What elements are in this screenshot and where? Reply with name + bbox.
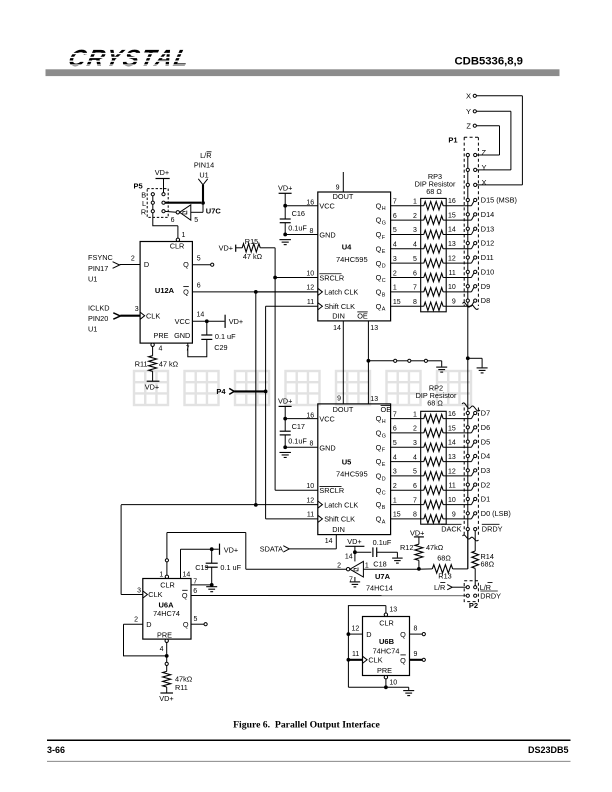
- svg-text:D1: D1: [481, 495, 490, 504]
- svg-text:VD+: VD+: [155, 168, 169, 177]
- svg-text:6: 6: [171, 217, 175, 224]
- svg-text:7: 7: [413, 285, 417, 292]
- svg-text:8: 8: [413, 299, 417, 306]
- svg-text:14: 14: [325, 538, 333, 545]
- svg-text:11: 11: [307, 512, 314, 519]
- svg-text:GND: GND: [174, 331, 190, 340]
- svg-text:9: 9: [452, 299, 456, 306]
- svg-text:Latch CLK: Latch CLK: [324, 500, 358, 509]
- svg-text:D4: D4: [481, 452, 490, 461]
- svg-text:Q: Q: [183, 288, 189, 297]
- svg-text:C: C: [382, 278, 386, 284]
- svg-text:Z: Z: [482, 148, 487, 157]
- svg-text:13: 13: [389, 607, 397, 614]
- svg-text:Q: Q: [376, 443, 382, 452]
- svg-text:9: 9: [452, 511, 456, 518]
- svg-text:8: 8: [413, 512, 417, 519]
- svg-text:SRCLR: SRCLR: [319, 273, 344, 282]
- svg-text:DIN: DIN: [332, 525, 345, 534]
- svg-text:5: 5: [194, 217, 198, 224]
- svg-text:P4: P4: [216, 387, 226, 396]
- svg-text:L/R: L/R: [434, 583, 445, 592]
- svg-text:C16: C16: [292, 209, 305, 218]
- svg-text:Q: Q: [400, 656, 406, 665]
- svg-text:DRDY: DRDY: [480, 591, 501, 600]
- svg-text:VD+: VD+: [278, 397, 292, 406]
- svg-text:D: D: [382, 476, 386, 482]
- svg-text:Figure 6. Parallel Output Int: Figure 6. Parallel Output Interface: [233, 720, 380, 731]
- svg-text:C17: C17: [292, 422, 305, 431]
- svg-text:Q: Q: [376, 288, 382, 297]
- svg-text:15: 15: [393, 299, 401, 306]
- svg-text:DOUT: DOUT: [333, 405, 354, 414]
- svg-text:2: 2: [134, 616, 138, 623]
- svg-text:U5: U5: [342, 458, 352, 467]
- svg-text:D: D: [144, 260, 149, 269]
- svg-text:3: 3: [135, 306, 139, 313]
- svg-text:11: 11: [307, 299, 314, 306]
- svg-text:2: 2: [393, 270, 397, 277]
- svg-text:FSYNC: FSYNC: [88, 253, 113, 262]
- svg-text:D12: D12: [481, 239, 494, 248]
- svg-text:U1: U1: [88, 275, 97, 284]
- svg-text:G: G: [382, 433, 386, 439]
- svg-text:Q: Q: [400, 630, 406, 639]
- svg-text:CDB5336,8,9: CDB5336,8,9: [455, 56, 523, 68]
- svg-text:C18: C18: [373, 559, 386, 568]
- svg-text:SRCLR: SRCLR: [319, 486, 344, 495]
- svg-text:Z: Z: [466, 121, 471, 130]
- svg-text:Q: Q: [376, 302, 382, 311]
- svg-text:Q: Q: [376, 230, 382, 239]
- svg-text:16: 16: [306, 412, 314, 419]
- svg-text:C: C: [382, 491, 386, 497]
- svg-text:4: 4: [160, 646, 164, 653]
- svg-text:6: 6: [193, 588, 197, 595]
- svg-text:A: A: [382, 519, 386, 525]
- svg-text:D: D: [366, 630, 371, 639]
- svg-text:D0 (LSB): D0 (LSB): [481, 509, 511, 518]
- svg-text:Q: Q: [376, 259, 382, 268]
- svg-text:6: 6: [197, 282, 201, 289]
- svg-text:U7A: U7A: [375, 572, 391, 581]
- svg-text:ICLKD: ICLKD: [88, 304, 110, 313]
- svg-text:7: 7: [393, 411, 397, 418]
- svg-text:1: 1: [393, 285, 397, 292]
- svg-text:74HC74: 74HC74: [373, 647, 400, 656]
- svg-text:Q: Q: [183, 260, 189, 269]
- svg-text:74HC595: 74HC595: [336, 255, 368, 264]
- svg-text:3: 3: [393, 469, 397, 476]
- svg-text:DS23DB5: DS23DB5: [528, 745, 569, 755]
- svg-text:74HC14: 74HC14: [366, 584, 393, 593]
- svg-text:15: 15: [393, 512, 401, 519]
- svg-text:D: D: [146, 620, 151, 629]
- svg-text:CLK: CLK: [146, 311, 160, 320]
- svg-text:3: 3: [413, 227, 417, 234]
- svg-text:PIN20: PIN20: [88, 314, 108, 323]
- svg-text:7: 7: [393, 199, 397, 206]
- svg-text:P5: P5: [134, 181, 143, 190]
- svg-text:Q: Q: [376, 500, 382, 509]
- svg-text:PRE: PRE: [377, 666, 392, 675]
- svg-text:OE: OE: [381, 405, 392, 414]
- svg-text:R: R: [141, 207, 146, 216]
- svg-text:11: 11: [449, 270, 456, 277]
- svg-text:CLK: CLK: [148, 590, 162, 599]
- svg-text:D14: D14: [481, 210, 494, 219]
- svg-text:4: 4: [393, 454, 397, 461]
- svg-text:C19: C19: [195, 563, 208, 572]
- svg-text:15: 15: [448, 212, 456, 219]
- svg-text:5: 5: [197, 255, 201, 262]
- svg-text:47kΩ: 47kΩ: [426, 543, 444, 552]
- svg-text:0.1uF: 0.1uF: [288, 437, 307, 446]
- svg-text:14: 14: [197, 312, 205, 319]
- svg-text:1: 1: [413, 199, 417, 206]
- svg-text:VD+: VD+: [278, 183, 292, 192]
- svg-text:VD+: VD+: [159, 694, 173, 703]
- svg-text:6: 6: [413, 270, 417, 277]
- svg-text:GND: GND: [319, 443, 335, 452]
- svg-text:7: 7: [193, 578, 197, 585]
- svg-text:13: 13: [370, 325, 378, 332]
- svg-text:14: 14: [183, 572, 191, 579]
- svg-text:D8: D8: [481, 296, 490, 305]
- svg-text:68Ω: 68Ω: [437, 554, 451, 563]
- svg-text:47 kΩ: 47 kΩ: [243, 252, 263, 261]
- svg-text:GND: GND: [319, 230, 335, 239]
- svg-text:SDATA: SDATA: [260, 545, 283, 554]
- svg-text:5: 5: [194, 616, 198, 623]
- svg-text:DOUT: DOUT: [333, 192, 354, 201]
- svg-text:8: 8: [309, 441, 313, 448]
- svg-text:Q: Q: [376, 244, 382, 253]
- svg-text:VD+: VD+: [145, 382, 159, 391]
- svg-text:H: H: [382, 419, 386, 425]
- svg-text:DACK: DACK: [441, 525, 461, 534]
- svg-text:11: 11: [352, 651, 359, 658]
- svg-text:Q: Q: [376, 486, 382, 495]
- svg-text:6: 6: [393, 213, 397, 220]
- svg-text:12: 12: [448, 468, 456, 475]
- svg-text:68 Ω: 68 Ω: [426, 187, 442, 196]
- svg-text:Q: Q: [376, 201, 382, 210]
- svg-text:Q: Q: [376, 472, 382, 481]
- svg-text:5: 5: [413, 469, 417, 476]
- svg-text:DRDY: DRDY: [482, 525, 503, 534]
- svg-text:U12A: U12A: [155, 286, 175, 295]
- svg-text:D6: D6: [481, 423, 490, 432]
- svg-text:D10: D10: [481, 267, 494, 276]
- svg-text:R15: R15: [245, 237, 258, 246]
- svg-text:U4: U4: [342, 243, 352, 252]
- svg-text:P1: P1: [448, 136, 457, 145]
- svg-text:B: B: [382, 292, 386, 298]
- svg-text:PRE: PRE: [153, 331, 168, 340]
- svg-text:2: 2: [393, 483, 397, 490]
- svg-text:13: 13: [370, 396, 378, 403]
- svg-text:CLR: CLR: [379, 618, 394, 627]
- svg-text:R11: R11: [175, 683, 188, 692]
- svg-text:5: 5: [413, 256, 417, 263]
- svg-text:14: 14: [333, 325, 341, 332]
- svg-text:9: 9: [336, 184, 340, 191]
- svg-text:X: X: [482, 178, 487, 187]
- svg-text:5: 5: [393, 440, 397, 447]
- svg-text:Shift CLK: Shift CLK: [324, 515, 355, 524]
- svg-text:7: 7: [413, 497, 417, 504]
- svg-text:D9: D9: [481, 282, 490, 291]
- svg-text:2: 2: [131, 255, 135, 262]
- svg-text:12: 12: [306, 285, 314, 292]
- svg-text:3: 3: [413, 440, 417, 447]
- svg-text:68Ω: 68Ω: [481, 560, 495, 569]
- svg-text:14: 14: [345, 553, 353, 560]
- svg-text:6: 6: [393, 426, 397, 433]
- svg-text:U1: U1: [199, 170, 208, 179]
- svg-text:2: 2: [413, 213, 417, 220]
- svg-text:VCC: VCC: [319, 415, 334, 424]
- svg-text:R13: R13: [438, 572, 451, 581]
- svg-text:PIN17: PIN17: [88, 264, 108, 273]
- svg-text:A: A: [382, 307, 386, 313]
- svg-text:10: 10: [306, 483, 314, 490]
- svg-text:OE: OE: [357, 311, 368, 320]
- svg-text:E: E: [382, 249, 386, 255]
- svg-text:D: D: [382, 264, 386, 270]
- svg-text:PRE: PRE: [157, 630, 172, 639]
- svg-text:12: 12: [448, 255, 456, 262]
- svg-text:Q: Q: [376, 414, 382, 423]
- svg-text:16: 16: [448, 198, 456, 205]
- svg-text:10: 10: [448, 284, 456, 291]
- svg-text:1: 1: [413, 411, 417, 418]
- svg-text:5: 5: [393, 227, 397, 234]
- svg-text:VD+: VD+: [229, 317, 243, 326]
- svg-text:U6B: U6B: [379, 637, 395, 646]
- svg-text:D11: D11: [481, 253, 494, 262]
- svg-text:16: 16: [306, 200, 314, 207]
- svg-text:3-66: 3-66: [47, 745, 65, 755]
- svg-text:13: 13: [448, 454, 456, 461]
- svg-text:2: 2: [413, 426, 417, 433]
- svg-text:D3: D3: [481, 466, 490, 475]
- svg-text:12: 12: [306, 497, 314, 504]
- svg-text:10: 10: [389, 679, 397, 686]
- svg-text:P2: P2: [469, 601, 478, 610]
- svg-text:15: 15: [448, 425, 456, 432]
- svg-text:4: 4: [413, 454, 417, 461]
- svg-text:D5: D5: [481, 437, 490, 446]
- svg-text:16: 16: [448, 411, 456, 418]
- svg-text:CLR: CLR: [170, 242, 185, 251]
- svg-text:68 Ω: 68 Ω: [427, 399, 443, 408]
- svg-text:7: 7: [186, 346, 190, 353]
- svg-text:2: 2: [337, 563, 341, 570]
- svg-text:1: 1: [393, 497, 397, 504]
- svg-text:PIN14: PIN14: [194, 160, 214, 169]
- svg-text:U1: U1: [88, 325, 97, 334]
- svg-text:VD+: VD+: [347, 537, 361, 546]
- svg-text:8: 8: [309, 228, 313, 235]
- svg-text:0.1uF: 0.1uF: [288, 224, 307, 233]
- svg-text:VCC: VCC: [319, 202, 334, 211]
- svg-text:VD+: VD+: [410, 528, 424, 537]
- svg-text:G: G: [382, 220, 386, 226]
- svg-text:D7: D7: [481, 409, 490, 418]
- svg-text:Latch CLK: Latch CLK: [324, 288, 358, 297]
- svg-text:U7C: U7C: [206, 207, 222, 216]
- svg-text:3: 3: [137, 587, 141, 594]
- svg-text:X: X: [466, 91, 471, 100]
- svg-text:74HC74: 74HC74: [153, 609, 180, 618]
- svg-text:4: 4: [413, 242, 417, 249]
- svg-text:Shift CLK: Shift CLK: [324, 302, 355, 311]
- svg-text:D2: D2: [481, 480, 490, 489]
- svg-text:DIN: DIN: [332, 311, 345, 320]
- svg-text:Q: Q: [376, 457, 382, 466]
- svg-text:R11: R11: [135, 360, 148, 369]
- svg-text:CLR: CLR: [160, 581, 175, 590]
- svg-text:R12: R12: [400, 543, 413, 552]
- svg-text:74HC595: 74HC595: [336, 470, 368, 479]
- svg-text:D13: D13: [481, 224, 494, 233]
- svg-text:VCC: VCC: [175, 317, 190, 326]
- svg-text:8: 8: [414, 626, 418, 633]
- svg-text:47 kΩ: 47 kΩ: [159, 360, 179, 369]
- svg-text:10: 10: [306, 270, 314, 277]
- svg-text:Q: Q: [376, 273, 382, 282]
- svg-text:12: 12: [352, 626, 360, 633]
- svg-text:Q: Q: [182, 591, 188, 600]
- svg-text:9: 9: [414, 651, 418, 658]
- svg-text:14: 14: [448, 440, 456, 447]
- svg-text:CRYSTAL: CRYSTAL: [66, 45, 194, 72]
- svg-text:1: 1: [365, 563, 369, 570]
- svg-text:1: 1: [182, 232, 186, 239]
- svg-text:H: H: [382, 206, 386, 212]
- svg-text:9: 9: [337, 395, 341, 402]
- svg-text:4: 4: [159, 346, 163, 353]
- svg-text:4: 4: [393, 242, 397, 249]
- svg-text:11: 11: [449, 483, 456, 490]
- svg-text:6: 6: [413, 483, 417, 490]
- svg-text:13: 13: [448, 241, 456, 248]
- svg-text:Y: Y: [466, 107, 471, 116]
- svg-text:3: 3: [393, 256, 397, 263]
- svg-text:Q: Q: [376, 515, 382, 524]
- svg-text:0.1 uF: 0.1 uF: [215, 332, 236, 341]
- svg-text:E: E: [382, 462, 386, 468]
- svg-text:0.1uF: 0.1uF: [373, 538, 392, 547]
- svg-text:CLK: CLK: [368, 656, 382, 665]
- svg-text:Y: Y: [482, 163, 487, 172]
- svg-text:VD+: VD+: [219, 244, 233, 253]
- svg-text:D15 (MSB): D15 (MSB): [481, 196, 517, 205]
- svg-text:0.1 uF: 0.1 uF: [220, 563, 241, 572]
- svg-text:Q: Q: [183, 620, 189, 629]
- svg-text:14: 14: [448, 227, 456, 234]
- svg-text:VD+: VD+: [224, 545, 238, 554]
- svg-text:B: B: [382, 505, 386, 511]
- svg-text:Q: Q: [376, 429, 382, 438]
- svg-text:Q: Q: [376, 216, 382, 225]
- svg-text:1: 1: [159, 572, 163, 579]
- svg-text:10: 10: [448, 497, 456, 504]
- svg-text:C29: C29: [214, 343, 227, 352]
- svg-text:L/R: L/R: [200, 151, 211, 160]
